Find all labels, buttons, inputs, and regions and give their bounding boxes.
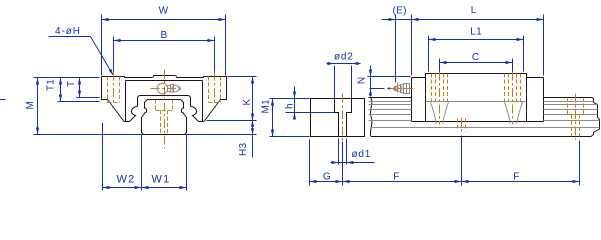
svg-text:(E): (E) (392, 6, 406, 17)
svg-text:h: h (285, 103, 296, 109)
svg-text:4-øH: 4-øH (55, 26, 81, 37)
svg-text:F: F (513, 172, 519, 183)
svg-text:M1: M1 (261, 99, 272, 114)
svg-text:K: K (242, 98, 253, 105)
svg-text:M: M (25, 101, 36, 110)
svg-text:N: N (357, 77, 368, 85)
svg-text:W1: W1 (152, 174, 171, 186)
svg-text:H3: H3 (238, 142, 249, 156)
svg-text:B: B (161, 30, 168, 41)
svg-text:ød1: ød1 (352, 149, 372, 160)
svg-text:T1: T1 (46, 79, 57, 91)
svg-text:W: W (159, 6, 169, 17)
svg-text:G: G (323, 172, 331, 183)
svg-text:T: T (66, 81, 77, 87)
svg-text:W2: W2 (117, 174, 136, 186)
svg-text:C: C (472, 52, 480, 63)
svg-text:L: L (471, 5, 477, 16)
svg-text:F: F (393, 172, 399, 183)
svg-text:L1: L1 (470, 27, 482, 38)
svg-text:ød2: ød2 (334, 52, 354, 63)
